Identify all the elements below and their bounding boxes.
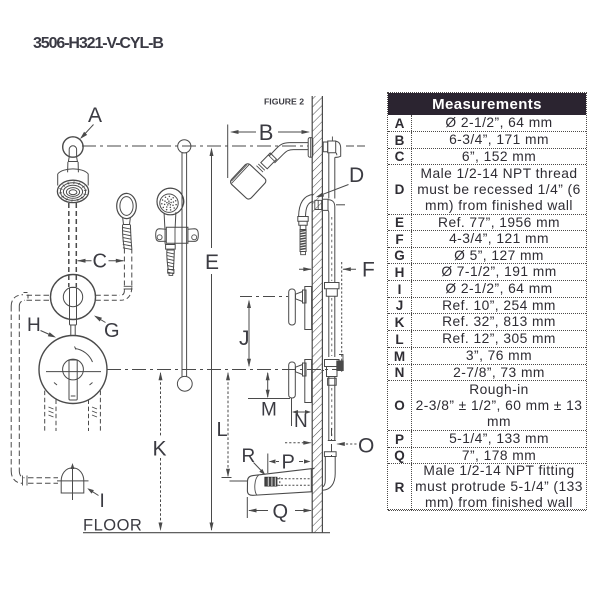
leader for G xyxy=(96,317,106,323)
dimension B line xyxy=(232,131,309,133)
drop ell body at D xyxy=(299,194,314,216)
tub spout centerline stub xyxy=(230,480,248,482)
dimension B extension line xyxy=(227,125,229,179)
tub spout body side view xyxy=(247,468,314,495)
dimension L line xyxy=(227,373,229,476)
measurements table xyxy=(387,92,587,510)
leader for I xyxy=(89,489,99,495)
drop ell slim tube xyxy=(300,225,306,229)
behind-wall riser pipe lower xyxy=(329,297,335,358)
svg-text:C: C xyxy=(93,251,107,273)
drop ell braided nipple xyxy=(300,230,306,252)
svg-text:D: D xyxy=(349,164,364,187)
slide bar pole xyxy=(182,153,187,377)
tub spout NPT fitting R (hatched) xyxy=(265,477,277,486)
hand shower hose elbow into valve G xyxy=(120,287,132,300)
centerline valve H height xyxy=(107,369,343,371)
svg-text:H: H xyxy=(27,315,41,336)
shower arm nut xyxy=(261,153,277,169)
dimension C line xyxy=(78,260,124,262)
shower head A face plate rings xyxy=(57,180,88,202)
dimension P extension tick xyxy=(267,454,269,474)
tub spout drop ell nipple xyxy=(325,457,335,481)
valve H inner hub xyxy=(63,359,84,380)
valve H escutcheon circle xyxy=(39,336,107,404)
dimension O line left xyxy=(285,442,311,444)
leader for R xyxy=(254,463,265,474)
dashed pipe elbow to G xyxy=(96,295,120,300)
dimension P line xyxy=(270,461,310,463)
centerline valve G side view xyxy=(240,296,288,298)
supply stub break marks xyxy=(49,407,54,417)
behind-wall riser pipe upper xyxy=(329,153,335,199)
side valve G escutcheon xyxy=(305,287,312,330)
dimension N line xyxy=(293,411,310,413)
dimension K line xyxy=(160,373,162,530)
leader for H xyxy=(41,331,55,337)
behind-wall union couplings xyxy=(325,283,340,297)
dimension J line xyxy=(248,301,250,366)
docked hose end fitting xyxy=(168,270,174,274)
elbow top left xyxy=(11,295,25,306)
shower head A ball post xyxy=(69,146,76,157)
dimension O line right xyxy=(338,443,358,445)
side valve H stem xyxy=(296,365,303,375)
valve H temperature arc xyxy=(75,349,93,363)
svg-text:P: P xyxy=(282,452,295,474)
side valve H handle xyxy=(289,362,296,398)
docked hand shower spray face xyxy=(160,194,178,212)
svg-text:A: A xyxy=(88,104,102,127)
shower arm xyxy=(269,143,308,163)
tub spout front view dome xyxy=(61,468,84,493)
valve H supply stubs dashed xyxy=(45,391,56,431)
side valve G handle xyxy=(289,289,296,325)
svg-text:O: O xyxy=(358,435,374,458)
tub spout front view centerlines xyxy=(57,465,89,501)
docked hand shower handle xyxy=(164,212,176,228)
handle visible through bracket xyxy=(165,228,175,243)
shower arm wall flange xyxy=(308,138,313,158)
svg-text:FLOOR: FLOOR xyxy=(83,517,142,535)
behind-wall tee at drop ell xyxy=(315,200,322,209)
valve H horizontal centerline tick xyxy=(46,371,101,373)
tub spout drop ell elbow xyxy=(322,474,335,491)
behind-wall nut below valve xyxy=(328,378,337,385)
drop ell end cap xyxy=(301,252,306,255)
hand shower wand neck xyxy=(123,218,131,225)
svg-text:Q: Q xyxy=(273,501,289,523)
dimension F line xyxy=(299,268,356,270)
valve G inner hub xyxy=(63,287,82,306)
elbow bottom left xyxy=(11,471,24,483)
dimension M line xyxy=(267,373,269,397)
valve H detents xyxy=(54,383,93,386)
centerline stub right of wall top xyxy=(346,145,365,147)
leader for D xyxy=(318,185,349,197)
elbow fitting bead bottom left xyxy=(23,476,28,486)
dimension M bottom tick xyxy=(248,398,290,400)
behind-wall riser pipe middle xyxy=(329,216,335,284)
drop ell hex nut xyxy=(298,217,308,226)
shower head A neck collar xyxy=(68,157,77,162)
svg-text:N: N xyxy=(294,411,308,432)
dimension F extension line xyxy=(341,262,343,372)
slide bar bottom finial xyxy=(177,376,192,391)
dashed riser from shower head to valve G xyxy=(68,203,70,287)
valve G handle xyxy=(70,288,77,326)
part number title xyxy=(33,37,163,50)
svg-text:K: K xyxy=(153,438,167,461)
side valve G stem xyxy=(296,292,303,302)
shower head A ball joint ring xyxy=(63,137,83,157)
svg-text:E: E xyxy=(205,251,219,274)
right shower head body xyxy=(229,162,267,200)
svg-text:R: R xyxy=(242,446,256,467)
svg-text:FIGURE 2: FIGURE 2 xyxy=(264,97,304,107)
behind-wall top fitting at shower arm xyxy=(323,142,328,152)
dimension E line xyxy=(211,149,213,530)
shower head A body cylinder xyxy=(58,169,88,186)
centerline shower head height xyxy=(82,145,308,147)
behind-wall pipe end cap xyxy=(328,440,336,442)
dashed vertical supply pipe far left xyxy=(11,306,19,471)
leader for A xyxy=(82,125,94,138)
behind-wall pipe hidden centerline xyxy=(331,217,333,281)
dimension N extension tick xyxy=(291,398,293,427)
valve G stem to valve H xyxy=(71,325,75,336)
shower head collar xyxy=(257,164,265,172)
behind-wall stop valve at H xyxy=(325,360,340,377)
svg-text:F: F xyxy=(362,259,375,282)
tub spout hidden nipple dotted xyxy=(277,479,311,486)
hand shower wand head (back view) xyxy=(117,193,137,218)
dimension Q line xyxy=(249,510,311,512)
hand shower hose dashed drop xyxy=(124,249,131,291)
dimension Q extension line xyxy=(246,497,248,518)
hand shower hose braided section xyxy=(123,225,132,249)
hose nut under bracket xyxy=(166,245,176,250)
side valve H escutcheon xyxy=(305,360,312,403)
dashed pipe to tub spout xyxy=(28,478,58,483)
docked hand shower head xyxy=(157,188,184,215)
svg-text:I: I xyxy=(100,491,105,512)
slide bar top finial xyxy=(178,140,191,153)
svg-text:L: L xyxy=(217,419,228,441)
svg-text:B: B xyxy=(259,120,274,145)
svg-text:J: J xyxy=(239,327,250,350)
valve H handle xyxy=(69,360,77,400)
hose ferrule at elbow xyxy=(124,286,133,289)
wall section edges xyxy=(312,96,322,533)
floor line xyxy=(83,532,330,534)
slide bar bracket xyxy=(166,227,188,243)
svg-text:M: M xyxy=(261,400,277,421)
centerline behind-wall pipe to drop ell xyxy=(331,428,333,457)
dimension L end tick xyxy=(222,477,232,479)
valve G escutcheon circle xyxy=(51,275,96,320)
docked hose braided xyxy=(167,250,175,269)
svg-text:G: G xyxy=(104,320,120,342)
dashed pipe from G going left xyxy=(27,295,51,300)
behind-wall riser pipe bottom xyxy=(329,377,335,441)
